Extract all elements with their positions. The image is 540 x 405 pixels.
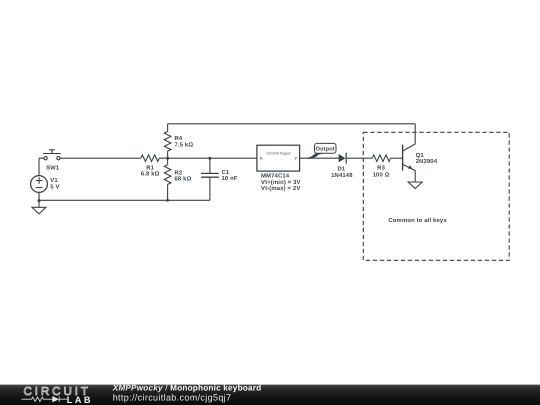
svg-text:2N3904: 2N3904 [416,158,438,165]
svg-text:5 V: 5 V [50,183,59,190]
svg-text:Q1: Q1 [416,152,425,159]
svg-text:C1: C1 [222,169,230,176]
svg-text:7.5 kΩ: 7.5 kΩ [175,141,194,148]
svg-text:1N4148: 1N4148 [331,172,353,179]
svg-text:R1: R1 [146,164,154,171]
svg-text:LAB: LAB [67,395,93,405]
svg-text:R3: R3 [377,164,385,171]
svg-text:10 nF: 10 nF [222,175,238,182]
svg-text:Vt-(max) = 2V: Vt-(max) = 2V [261,185,300,192]
svg-text:100 Ω: 100 Ω [373,171,390,178]
svg-text:MM74C14: MM74C14 [261,172,290,179]
svg-text:Common to all keys: Common to all keys [388,217,447,224]
svg-text:Output: Output [316,147,335,153]
svg-text:SW1: SW1 [46,164,60,171]
svg-text:V1: V1 [50,177,58,184]
svg-text:http://circuitlab.com/cjg5qj7: http://circuitlab.com/cjg5qj7 [113,393,232,403]
svg-text:68 kΩ: 68 kΩ [175,175,192,182]
svg-text:6.8 kΩ: 6.8 kΩ [141,171,160,178]
svg-text:D1: D1 [337,166,345,173]
svg-text:XMPPwocky / Monophonic keyboar: XMPPwocky / Monophonic keyboard [112,384,262,393]
svg-text:Schmitt trigger: Schmitt trigger [266,152,291,156]
svg-text:R4: R4 [175,135,183,142]
svg-text:Vt+(min) = 3V: Vt+(min) = 3V [261,179,301,186]
